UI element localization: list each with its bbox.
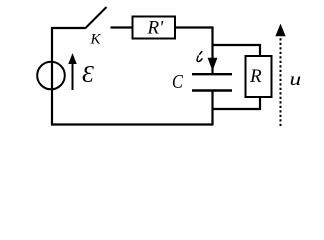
svg-text:R': R': [147, 18, 165, 39]
wire: switch to resistor R': [111, 26, 133, 28]
wire: top-left horizontal segment: [51, 27, 85, 29]
svg-text:R: R: [249, 66, 262, 87]
switch K blade: [85, 7, 107, 29]
node A junction wire to R branch: [213, 45, 261, 55]
label i: [197, 52, 202, 62]
source E (circle): [37, 62, 65, 90]
current arrow i: [208, 58, 216, 69]
wire: bottom rail: [51, 123, 214, 125]
capacitor C bottom plate: [192, 89, 232, 91]
svg-text:Ɛ: Ɛ: [82, 62, 94, 88]
wire: capacitor down to bottom rail: [211, 90, 213, 125]
capacitor C top plate: [192, 73, 232, 75]
svg-text:C: C: [172, 71, 184, 93]
wire: R' to top-right corner, down to node A: [176, 28, 213, 46]
resistor R' (box): [133, 17, 176, 39]
svg-text:u: u: [290, 68, 302, 89]
source E arrow: [72, 62, 74, 90]
wire: R bottom to connector: [213, 98, 261, 109]
wire: node A down to capacitor: [211, 45, 213, 73]
source E arrowhead: [69, 55, 76, 64]
wire: left rail: [51, 27, 53, 125]
voltage u arrowhead: [276, 25, 285, 36]
svg-text:K: K: [90, 31, 102, 47]
resistor R (box): [246, 56, 272, 97]
voltage u dashed line: [280, 37, 282, 126]
